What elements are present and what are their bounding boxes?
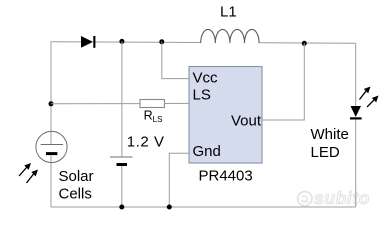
wire top rail left — [51, 41, 82, 43]
svg-text:Solar: Solar — [59, 168, 94, 185]
LED light arrow 2 — [367, 96, 379, 108]
wire LS to IC — [165, 102, 190, 104]
wire battery branch upper — [121, 41, 123, 157]
wire LS node left segment — [51, 103, 140, 105]
wire left rail upper — [50, 42, 52, 144]
svg-text:L1: L1 — [220, 4, 237, 21]
wire Vout branch — [262, 43, 304, 120]
label White LED — [311, 126, 349, 161]
wire LED rail lower — [355, 120, 357, 208]
wire LED rail upper — [355, 43, 357, 106]
inductor L1 — [201, 29, 259, 43]
LED D2 — [350, 106, 362, 120]
junction node LS-left — [49, 101, 54, 106]
svg-text:Vout: Vout — [231, 113, 262, 130]
wire bottom rail — [51, 206, 356, 208]
svg-text:Cells: Cells — [59, 186, 92, 203]
svg-text:White: White — [311, 126, 349, 143]
wire left rail lower — [50, 156, 52, 208]
svg-text:subito: subito — [314, 188, 370, 208]
svg-text:LS: LS — [193, 87, 211, 104]
junction node Gnd-bottom — [167, 205, 172, 210]
junction node Vout-top — [302, 41, 307, 46]
svg-text:Gnd: Gnd — [193, 143, 221, 160]
solar light arrow 2 — [27, 170, 39, 184]
solar light arrow 1 — [19, 163, 31, 176]
svg-text:LED: LED — [311, 144, 340, 161]
svg-text:Vcc: Vcc — [193, 70, 219, 87]
wire Vcc branch — [162, 42, 189, 79]
battery BT1 — [110, 157, 133, 165]
resistor RLS — [140, 100, 165, 108]
watermark subito logo — [298, 192, 312, 206]
junction node Vcc-branch — [159, 39, 164, 44]
wire top rail mid — [95, 41, 202, 44]
junction node battery-bottom — [119, 205, 124, 210]
junction node battery-top — [119, 39, 124, 44]
IC U1 PR4403 — [189, 67, 262, 164]
label Solar Cells — [59, 168, 94, 203]
svg-text:1.2 V: 1.2 V — [127, 134, 165, 151]
LED light arrow 1 — [360, 87, 371, 100]
solar cell G1 — [36, 131, 67, 162]
wire battery branch lower — [121, 166, 123, 207]
svg-text:PR4403: PR4403 — [199, 168, 253, 185]
wire Gnd branch — [169, 153, 189, 207]
diode D1 — [81, 36, 95, 48]
wire top rail right — [259, 42, 356, 45]
